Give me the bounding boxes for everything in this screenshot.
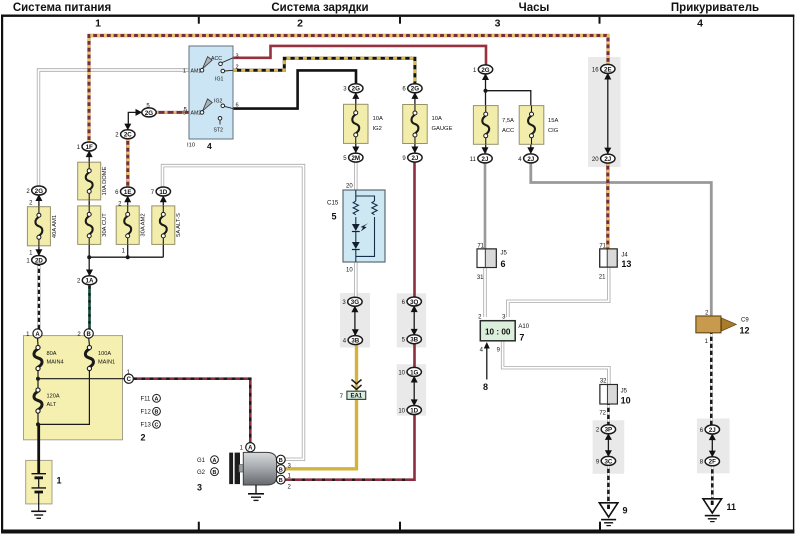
svg-text:16: 16 — [592, 67, 599, 73]
terminal C fusebox — [124, 370, 133, 383]
svg-text:F13: F13 — [141, 423, 152, 429]
wire link 2G to 2C junction — [128, 112, 141, 125]
wire fuse AM1 top lead — [38, 194, 40, 207]
wire black-white 2F to ground 11 — [711, 466, 714, 499]
svg-text:2J: 2J — [411, 155, 418, 162]
wire gray 11-2J to J5 — [484, 163, 487, 250]
svg-text:7: 7 — [519, 333, 524, 343]
wire maroon switch ACC to 1-2G — [233, 46, 486, 66]
connector oval 2E pin 16 — [592, 64, 615, 73]
svg-text:G1: G1 — [197, 458, 206, 464]
fuse 30A CUT — [78, 206, 101, 245]
wire twisted maroon-yellow 2C to 1E — [126, 138, 129, 188]
arrowheads pointing down into ovals — [35, 124, 715, 458]
wire fuse DOME top lead — [88, 150, 90, 163]
svg-text:2J: 2J — [527, 156, 534, 163]
svg-text:3: 3 — [197, 483, 202, 493]
connector oval 2G pin 2 — [26, 186, 46, 195]
wire white 2M to C15 pin20 — [354, 162, 357, 192]
connector oval 2J pin 6 — [700, 425, 720, 434]
junction dot CUT-1A — [87, 255, 91, 259]
svg-text:4: 4 — [207, 141, 212, 151]
cigarette lighter C9 component 12 — [696, 311, 750, 345]
svg-text:5: 5 — [332, 212, 337, 222]
svg-text:120A: 120A — [47, 394, 60, 400]
svg-text:3P: 3P — [605, 427, 613, 434]
connector oval 1A pin 2 — [77, 276, 97, 285]
wire twisted maroon-yellow main AM2 feed 1F to 2E — [89, 36, 608, 144]
wire white J5 pin31 to clock pin2 — [483, 268, 486, 318]
wire black-white 3C to ground 9 — [607, 465, 610, 502]
fuse 10A DOME — [78, 162, 101, 200]
connector oval 2D pin 1 — [26, 256, 46, 265]
wire black-white lighter C9 pin1 to 6-2J — [710, 333, 713, 426]
fuse 10A GAUGE — [403, 105, 428, 144]
svg-text:2J: 2J — [604, 156, 611, 163]
svg-text:ACC: ACC — [211, 56, 222, 62]
svg-text:21: 21 — [599, 274, 606, 280]
connector oval 2J pin 11 — [470, 154, 493, 163]
svg-text:2G: 2G — [145, 110, 153, 117]
connector oval 1D pin 10 — [398, 406, 421, 415]
svg-text:1: 1 — [183, 69, 186, 75]
wire yellow 3B to EA1 — [355, 344, 358, 392]
svg-text:B: B — [87, 332, 92, 338]
svg-text:C: C — [127, 377, 132, 383]
junction connector J5 component 6 — [477, 243, 508, 280]
svg-text:AM1: AM1 — [191, 68, 202, 74]
alternator component 3 — [229, 443, 291, 501]
svg-text:10A: 10A — [432, 116, 442, 122]
wire maroon 1D to alternator B-2 — [285, 414, 414, 480]
wire black-white J5 pin72 to 3P — [607, 404, 610, 426]
svg-text:10: 10 — [621, 396, 631, 406]
wire green-black 1A to fusebox B — [88, 284, 91, 329]
wire yellow EA1 to alternator B-1 — [285, 399, 356, 469]
svg-text:10 : 00: 10 : 00 — [485, 327, 511, 336]
svg-text:2G: 2G — [411, 86, 419, 93]
connector oval 2G pin 3 — [343, 84, 363, 93]
shaded band connector 3P-3C — [593, 420, 625, 474]
svg-text:30A AM2: 30A AM2 — [141, 213, 147, 236]
ground 9 body ground — [599, 503, 627, 526]
terminal A fusebox — [26, 329, 42, 338]
svg-text:J4: J4 — [621, 253, 628, 259]
svg-text:1A: 1A — [86, 278, 94, 285]
connector oval 1F pin 1 — [77, 142, 97, 151]
fuse 30A AM2 — [116, 206, 139, 245]
svg-text:2F: 2F — [709, 459, 716, 466]
wire fuse IG2 leads — [355, 92, 357, 153]
wire white AM1 to connector 2G — [39, 70, 190, 187]
fuse 40A AM1 — [27, 207, 50, 246]
connector oval 3B pin 4 — [343, 336, 363, 345]
svg-text:1D: 1D — [410, 407, 418, 414]
svg-text:80A: 80A — [47, 351, 57, 357]
svg-text:A: A — [35, 332, 40, 338]
wire twisted maroon-yellow 2G to switch AM2 — [156, 111, 190, 114]
svg-text:IG1: IG1 — [215, 77, 223, 83]
wire link 3P to 3C — [607, 434, 609, 457]
svg-text:100A: 100A — [98, 351, 111, 357]
svg-text:9: 9 — [623, 506, 628, 516]
svg-text:EA1: EA1 — [350, 394, 362, 400]
connector oval 3P pin 2 — [596, 425, 616, 434]
svg-text:13: 13 — [621, 259, 631, 269]
svg-text:ALT: ALT — [47, 402, 57, 408]
svg-text:B: B — [279, 468, 283, 474]
wire twisted maroon-yellow 20-2J to J4 — [606, 163, 609, 250]
junction dot AM2 — [126, 255, 130, 259]
svg-text:C9: C9 — [741, 318, 749, 324]
connector oval 3C pin 9 — [596, 456, 616, 465]
svg-text:4: 4 — [697, 18, 703, 30]
connector oval 1E pin 6 — [115, 187, 135, 196]
svg-text:11: 11 — [727, 502, 737, 512]
svg-text:2D: 2D — [35, 257, 43, 264]
fusebox F11-F13 component 2 — [24, 336, 125, 440]
svg-text:8: 8 — [483, 382, 488, 392]
splice chevrons above EA1 — [352, 380, 362, 390]
svg-text:3: 3 — [236, 54, 239, 60]
svg-text:J5: J5 — [501, 251, 508, 257]
svg-text:Система зарядки: Система зарядки — [271, 2, 368, 14]
fuse 15A CIG — [519, 106, 544, 145]
svg-text:10A DOME: 10A DOME — [102, 166, 108, 195]
svg-text:32: 32 — [600, 379, 607, 385]
wire maroon-black fusebox C to alternator A — [133, 379, 250, 443]
shaded band connector 2J-2F — [697, 419, 730, 474]
wire maroon 9-2J down to 3Q — [413, 162, 416, 297]
svg-text:40A AM1: 40A AM1 — [52, 215, 58, 238]
junction connector J4 component 13 — [599, 243, 632, 280]
svg-text:3Q: 3Q — [410, 299, 418, 306]
connector oval 3Q pin 6 — [402, 297, 422, 306]
svg-text:15A: 15A — [548, 118, 558, 124]
connector oval 1G pin 10 — [398, 367, 421, 376]
svg-text:71: 71 — [599, 243, 606, 249]
svg-text:CIG: CIG — [548, 128, 559, 134]
wire yellow-black switch IG1 to 6-2G — [233, 58, 415, 84]
svg-text:1: 1 — [95, 18, 101, 30]
svg-text:Система питания: Система питания — [13, 2, 111, 14]
terminal B fusebox — [77, 329, 93, 338]
svg-text:MAIN1: MAIN1 — [98, 360, 115, 366]
svg-text:2J: 2J — [709, 427, 716, 434]
wire fuse GAUGE leads — [414, 92, 416, 153]
svg-text:I10: I10 — [187, 143, 195, 149]
connector oval 2F pin 8 — [700, 457, 720, 466]
wire white 1D to alternator B — [163, 166, 304, 460]
connector oval 3B pin 5 — [402, 335, 422, 344]
svg-text:3C: 3C — [604, 458, 612, 465]
svg-text:30A CUT: 30A CUT — [102, 213, 108, 237]
svg-text:2G: 2G — [481, 67, 489, 74]
svg-text:3B: 3B — [351, 338, 359, 345]
svg-text:2G: 2G — [35, 188, 43, 195]
wire fuse ACC feed with branch to CIG — [486, 73, 531, 153]
svg-text:A: A — [155, 397, 159, 403]
wire black-white 2D to fusebox A — [38, 264, 41, 330]
connector oval 2G pin 1 — [473, 65, 493, 74]
svg-text:20: 20 — [592, 157, 599, 163]
shaded band connector 3G-3B — [340, 293, 370, 348]
svg-text:F11: F11 — [141, 397, 152, 403]
svg-text:GAUGE: GAUGE — [432, 126, 453, 132]
fuse 5A ALT-S — [152, 206, 175, 245]
wire fuse ALT-S top lead — [162, 196, 164, 207]
svg-text:C: C — [155, 423, 159, 429]
svg-text:6: 6 — [501, 259, 506, 269]
svg-text:10: 10 — [398, 370, 405, 376]
svg-text:10: 10 — [398, 408, 405, 414]
svg-text:B: B — [213, 470, 217, 476]
svg-text:2E: 2E — [604, 66, 612, 73]
wire link 3G to 3B — [354, 306, 356, 336]
wire link 3Q to 3B — [413, 306, 415, 335]
svg-text:72: 72 — [599, 411, 606, 417]
connector oval 1D pin 7 — [151, 187, 171, 196]
svg-text:Часы: Часы — [519, 2, 550, 14]
fuse 7.5A ACC — [473, 106, 498, 145]
svg-text:2C: 2C — [124, 132, 132, 139]
clock A10 component 7 — [478, 315, 530, 393]
svg-text:7,5A: 7,5A — [502, 118, 514, 124]
svg-text:2G: 2G — [352, 86, 360, 93]
svg-text:10A: 10A — [373, 116, 383, 122]
svg-text:2: 2 — [297, 18, 303, 30]
connector oval 2J pin 4 — [518, 154, 538, 163]
ground 11 body ground — [703, 499, 736, 522]
svg-text:B: B — [279, 458, 283, 464]
wire fuse AM2 top lead — [127, 196, 129, 207]
svg-text:10: 10 — [346, 268, 353, 274]
svg-text:ST2: ST2 — [214, 128, 224, 134]
svg-text:A10: A10 — [518, 324, 529, 330]
svg-text:A: A — [248, 446, 253, 452]
wire junction net below CUT AM2 ALT-S fuses — [89, 244, 163, 276]
svg-text:1E: 1E — [124, 189, 132, 196]
wire clock pin4 input arrow 8 — [486, 344, 488, 380]
svg-text:3G: 3G — [351, 299, 359, 306]
svg-text:1F: 1F — [86, 144, 93, 151]
svg-text:2J: 2J — [482, 156, 489, 163]
connector oval 2J pin 9 — [402, 153, 422, 162]
svg-text:11: 11 — [470, 157, 477, 163]
shaded band connector 2E-2J — [588, 57, 621, 167]
ignition switch I10 U4 — [183, 46, 239, 151]
svg-text:J5: J5 — [621, 389, 628, 395]
wire link 2E to 2J — [607, 74, 609, 155]
svg-text:6: 6 — [236, 103, 239, 109]
pin labels misc — [29, 103, 188, 256]
svg-text:A: A — [213, 458, 217, 464]
junction connector J5 component 10 — [599, 379, 630, 417]
wire white J4 pin21 to clock pin3 — [508, 267, 609, 317]
connector oval 2J pin 20 — [592, 154, 615, 163]
svg-text:12: 12 — [740, 326, 750, 336]
connector oval 2M pin 5 — [343, 153, 363, 162]
shaded band connector 1G-1D — [397, 364, 426, 415]
svg-text:2: 2 — [236, 65, 239, 71]
svg-text:2M: 2M — [351, 155, 360, 162]
junction dot ACC-CIG feed — [484, 89, 488, 93]
svg-text:F12: F12 — [141, 410, 152, 416]
connector oval 3G pin 3 — [342, 297, 362, 306]
connector oval 2G pin 6 — [402, 84, 422, 93]
svg-text:1: 1 — [57, 476, 62, 486]
svg-text:1G: 1G — [410, 369, 418, 376]
wire fuse AM1 bottom lead — [38, 246, 40, 256]
legend F11 F12 F13 — [141, 394, 161, 442]
voltage regulator C15 U5 — [327, 184, 385, 274]
svg-text:C15: C15 — [327, 200, 339, 207]
battery component 1 — [26, 440, 62, 518]
wire white C15 pin10 to connector 3G — [354, 261, 357, 298]
connector oval 2G pin 5 at switch AM2 — [142, 108, 156, 117]
svg-text:3: 3 — [495, 18, 501, 30]
wire white clock pin9 to J5 pin32 — [503, 341, 609, 385]
legend G1 G2 alternator — [197, 456, 218, 493]
svg-text:71: 71 — [477, 243, 484, 249]
svg-text:AM2: AM2 — [191, 111, 202, 117]
svg-text:5A ALT-S: 5A ALT-S — [176, 213, 182, 237]
wire gray 4-2J to lighter C9 — [531, 163, 712, 317]
wire link 1G to 1D — [413, 376, 415, 406]
svg-text:IG2: IG2 — [214, 99, 222, 105]
wire link 2J to 2F — [711, 434, 713, 457]
svg-text:B: B — [279, 478, 283, 484]
svg-text:Прикуриватель: Прикуриватель — [671, 2, 759, 14]
wire black switch IG2 to 3-2G — [233, 70, 356, 108]
svg-text:ACC: ACC — [502, 128, 514, 134]
wire fuse DOME to CUT lead — [88, 200, 90, 206]
wire maroon 3B to 1G — [413, 344, 416, 368]
ground point EA1 — [340, 391, 366, 400]
svg-text:MAIN4: MAIN4 — [47, 360, 64, 366]
svg-text:3B: 3B — [410, 337, 418, 344]
svg-text:IG2: IG2 — [373, 126, 382, 132]
arrowheads pointing up into ovals — [35, 73, 715, 440]
svg-text:2: 2 — [141, 433, 146, 443]
svg-text:31: 31 — [477, 275, 484, 281]
connector oval 2C pin 2 — [115, 130, 135, 139]
svg-text:B: B — [155, 410, 159, 416]
svg-text:1D: 1D — [159, 189, 167, 196]
shaded band connector 3Q-3B — [397, 293, 426, 347]
svg-text:20: 20 — [346, 184, 353, 190]
fuse 10A IG2 — [344, 104, 369, 143]
svg-text:G2: G2 — [197, 470, 206, 476]
arrowhead right into 2G — [136, 109, 143, 116]
